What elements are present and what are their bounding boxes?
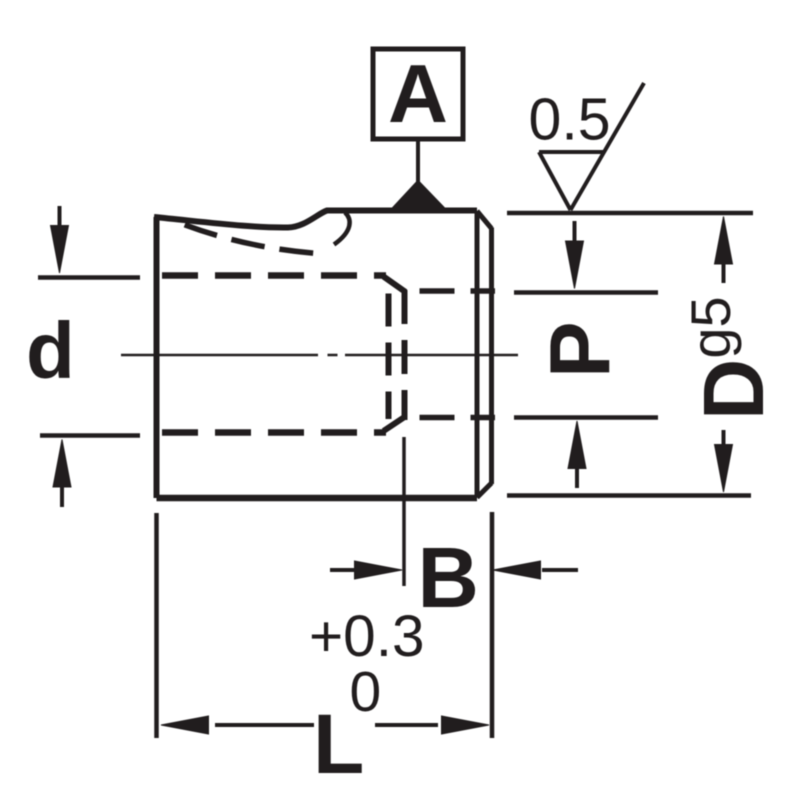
svg-text:L: L: [313, 697, 364, 791]
small bore bottom dashed line: [406, 415, 496, 421]
dim P bottom extension line: [514, 415, 658, 420]
centerline: [121, 354, 518, 357]
body top break edge: [154, 211, 477, 228]
surface finish symbol: [539, 83, 644, 210]
dim B right arrow: [542, 568, 578, 572]
dim B left arrow: [330, 568, 360, 572]
bore step dashed vertical right: [402, 290, 408, 420]
dim B left extension line: [402, 437, 406, 586]
small bore top dashed line: [406, 288, 496, 294]
svg-text:0.5: 0.5: [529, 87, 611, 153]
datum leader: [416, 139, 420, 184]
svg-text:A: A: [388, 47, 448, 140]
dim P bottom arrow: [575, 466, 579, 488]
dim L right extension line: [490, 512, 495, 738]
dim d top arrow: [58, 206, 62, 228]
dim D down arrow: [722, 430, 726, 450]
dim P top arrow: [573, 221, 577, 243]
dim d bottom arrow: [60, 485, 64, 507]
top extension line (0.5 / D): [507, 211, 753, 216]
dim d bottom extension line: [40, 433, 140, 438]
break inner dashed curve: [180, 223, 318, 254]
big bore top dashed line: [160, 272, 386, 279]
dim L left extension line: [154, 513, 159, 738]
big bore bottom dashed line: [160, 429, 386, 436]
break hook curve: [334, 213, 350, 245]
dim d top extension line: [38, 275, 140, 280]
svg-text:Dg5: Dg5: [679, 296, 782, 420]
datum frame A: [373, 49, 463, 139]
bottom extension line D: [507, 493, 751, 498]
dim P top extension line: [514, 290, 658, 295]
datum triangle: [391, 181, 446, 210]
body outline: [154, 217, 160, 498]
dim L line right segment: [375, 723, 438, 727]
svg-text:d: d: [26, 306, 75, 395]
dim L line left segment: [215, 723, 314, 727]
svg-text:P: P: [533, 321, 628, 378]
dim D up arrow: [722, 262, 726, 283]
svg-text:B: B: [418, 531, 479, 626]
bore step dashed vertical left: [386, 294, 392, 420]
